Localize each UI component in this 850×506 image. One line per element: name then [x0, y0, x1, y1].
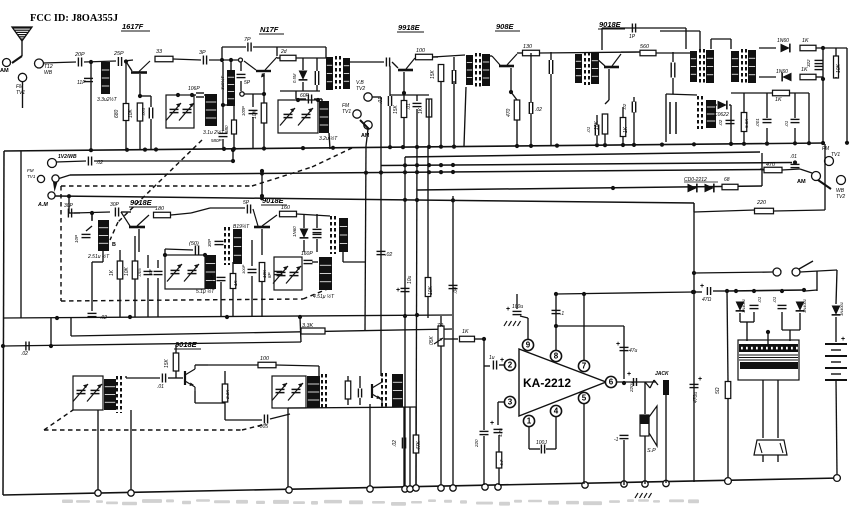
- svg-text:1K: 1K: [802, 38, 809, 44]
- svg-text:TV1: TV1: [831, 152, 840, 158]
- svg-text:2: 2: [508, 361, 513, 370]
- svg-text:470: 470: [766, 162, 775, 168]
- svg-text:N17F: N17F: [260, 25, 279, 34]
- svg-text:20P: 20P: [74, 52, 85, 58]
- svg-text:1K: 1K: [623, 126, 629, 133]
- svg-text:1u: 1u: [489, 355, 495, 361]
- svg-text:8: 8: [554, 352, 559, 361]
- svg-text:.02: .02: [100, 315, 107, 321]
- svg-text:TV1: TV1: [27, 174, 36, 179]
- svg-text:2.2K: 2.2K: [225, 389, 230, 400]
- svg-text:.02: .02: [392, 440, 398, 447]
- svg-text:C0622: C0622: [714, 112, 729, 118]
- svg-text:+: +: [490, 420, 494, 427]
- svg-text:1K: 1K: [418, 107, 424, 114]
- svg-text:S.P: S.P: [647, 448, 656, 454]
- svg-text:1K: 1K: [462, 329, 469, 335]
- svg-text:9918E: 9918E: [398, 23, 421, 32]
- svg-text:.02: .02: [21, 351, 28, 357]
- svg-text:KA-2212: KA-2212: [523, 376, 571, 390]
- svg-text:TV1: TV1: [342, 109, 351, 115]
- svg-text:.01: .01: [784, 120, 789, 127]
- svg-text:1K: 1K: [775, 97, 782, 103]
- svg-text:100P: 100P: [241, 106, 246, 116]
- svg-text:-1: -1: [614, 437, 619, 443]
- svg-text:680: 680: [114, 109, 120, 118]
- svg-text:0.5M: 0.5M: [292, 73, 297, 83]
- svg-text:5.1μ ½T: 5.1μ ½T: [196, 288, 215, 295]
- svg-text:AM: AM: [0, 68, 9, 74]
- svg-text:AM: AM: [797, 179, 806, 185]
- svg-text:15K: 15K: [393, 104, 399, 114]
- svg-text:2d: 2d: [280, 49, 287, 55]
- svg-text:3: 3: [508, 398, 513, 407]
- svg-text:1V2/WB: 1V2/WB: [58, 154, 77, 160]
- svg-text:1617F: 1617F: [122, 22, 144, 31]
- svg-text:FM: FM: [822, 146, 830, 152]
- svg-text:30P: 30P: [64, 203, 74, 209]
- svg-text:220: 220: [474, 439, 479, 448]
- svg-text:1: 1: [527, 417, 532, 426]
- svg-text:B: B: [112, 242, 116, 248]
- svg-text:220: 220: [756, 200, 766, 206]
- svg-text:.001: .001: [755, 118, 760, 127]
- svg-text:9018E: 9018E: [262, 196, 285, 205]
- svg-text:470u: 470u: [693, 392, 699, 403]
- svg-text:1K: 1K: [109, 269, 115, 276]
- svg-text:+: +: [627, 371, 631, 378]
- svg-text:470: 470: [506, 108, 512, 117]
- svg-text:1N60: 1N60: [776, 69, 788, 75]
- svg-text:+: +: [841, 336, 845, 343]
- svg-text:130: 130: [523, 44, 532, 50]
- svg-text:180: 180: [155, 206, 164, 212]
- svg-text:B19¼T: B19¼T: [233, 224, 250, 230]
- svg-text:+: +: [506, 306, 510, 313]
- svg-text:680: 680: [224, 125, 229, 133]
- svg-text:.02: .02: [718, 119, 723, 126]
- svg-text:4: 4: [554, 407, 559, 416]
- svg-text:100: 100: [416, 48, 425, 54]
- svg-text:330P: 330P: [209, 273, 214, 283]
- svg-text:.01: .01: [586, 126, 591, 133]
- svg-text:3.3u2½T: 3.3u2½T: [97, 96, 118, 103]
- svg-text:.005: .005: [141, 107, 146, 116]
- svg-text:7: 7: [582, 362, 587, 371]
- svg-text:WB: WB: [44, 70, 53, 76]
- svg-text:580P: 580P: [211, 138, 222, 143]
- svg-text:5Ω: 5Ω: [715, 387, 721, 394]
- svg-text:100P: 100P: [241, 264, 246, 274]
- svg-text:+: +: [616, 341, 620, 348]
- svg-text:A.M: A.M: [37, 202, 48, 208]
- svg-text:.01: .01: [772, 296, 777, 303]
- svg-text:160P: 160P: [301, 251, 313, 257]
- svg-text:10K: 10K: [836, 63, 842, 73]
- svg-text:220u: 220u: [629, 381, 634, 393]
- svg-text:30P: 30P: [207, 239, 212, 247]
- svg-text:322: 322: [806, 59, 811, 67]
- svg-text:100: 100: [260, 356, 269, 362]
- svg-text:TV2: TV2: [836, 194, 845, 200]
- svg-text:8P: 8P: [148, 269, 153, 275]
- svg-text:10K: 10K: [124, 266, 130, 276]
- svg-text:160: 160: [281, 205, 290, 211]
- svg-text:3P: 3P: [199, 50, 206, 56]
- svg-text:.01: .01: [157, 384, 164, 390]
- svg-text:+: +: [500, 357, 504, 364]
- svg-text:10P: 10P: [74, 235, 79, 243]
- svg-text:FCC ID: J8OA355J: FCC ID: J8OA355J: [30, 12, 118, 24]
- svg-text:47Ω: 47Ω: [702, 297, 712, 303]
- svg-text:9018E: 9018E: [130, 198, 153, 207]
- svg-text:11P: 11P: [77, 80, 86, 86]
- svg-text:25P: 25P: [113, 51, 124, 57]
- svg-text:6: 6: [609, 378, 614, 387]
- svg-text:1N4001: 1N4001: [839, 302, 844, 316]
- svg-text:908E: 908E: [496, 22, 515, 31]
- svg-text:560: 560: [640, 44, 649, 50]
- svg-text:(50): (50): [189, 241, 199, 247]
- svg-text:1P: 1P: [629, 34, 636, 40]
- svg-text:10K: 10K: [252, 109, 258, 119]
- svg-text:33: 33: [156, 49, 162, 55]
- svg-text:.1: .1: [560, 311, 564, 317]
- svg-text:10u: 10u: [407, 275, 413, 284]
- svg-text:5P: 5P: [243, 200, 250, 206]
- svg-text:+: +: [396, 287, 400, 294]
- svg-text:.01: .01: [790, 154, 797, 160]
- svg-text:15K: 15K: [430, 69, 436, 79]
- svg-text:.04: .04: [453, 287, 459, 294]
- svg-text:4.51μ ½T: 4.51μ ½T: [313, 293, 335, 300]
- svg-text:FM: FM: [27, 168, 34, 173]
- svg-text:1N60: 1N60: [292, 226, 297, 237]
- svg-text:5.6K: 5.6K: [744, 118, 749, 128]
- svg-text:47K: 47K: [416, 440, 422, 450]
- svg-text:9018E: 9018E: [175, 340, 198, 349]
- svg-text:7P: 7P: [244, 37, 251, 43]
- svg-text:10K: 10K: [128, 108, 134, 118]
- svg-text:5: 5: [582, 394, 587, 403]
- svg-text:4.7: 4.7: [499, 459, 504, 466]
- svg-text:1N4001: 1N4001: [802, 299, 807, 313]
- svg-text:3.1u 2½T: 3.1u 2½T: [203, 129, 225, 136]
- svg-text:.02: .02: [535, 107, 542, 113]
- svg-text:TV2: TV2: [356, 86, 365, 92]
- svg-text:3.3K: 3.3K: [302, 323, 313, 329]
- svg-text:60P: 60P: [300, 93, 310, 99]
- svg-text:.01: .01: [406, 103, 412, 110]
- svg-text:8P: 8P: [267, 272, 272, 278]
- svg-text:9: 9: [526, 341, 531, 350]
- svg-text:68: 68: [724, 177, 730, 183]
- svg-text:7R: 7R: [437, 323, 444, 329]
- svg-text:30P: 30P: [110, 202, 120, 208]
- svg-text:.02: .02: [622, 103, 627, 110]
- svg-text:.02: .02: [385, 252, 392, 258]
- svg-text:.01: .01: [757, 296, 762, 303]
- svg-text:100J: 100J: [536, 440, 547, 446]
- svg-text:JACK: JACK: [655, 371, 669, 377]
- svg-text:106P: 106P: [188, 86, 200, 92]
- svg-text:1N60: 1N60: [777, 38, 789, 44]
- svg-text:.01: .01: [378, 97, 384, 104]
- svg-text:47u: 47u: [629, 348, 638, 354]
- svg-text:AM: AM: [361, 133, 370, 139]
- svg-text:.005: .005: [137, 268, 142, 277]
- svg-text:+: +: [698, 376, 702, 383]
- svg-text:5P: 5P: [244, 80, 251, 86]
- svg-text:2.51u ½T: 2.51u ½T: [87, 253, 110, 260]
- svg-text:TV1: TV1: [16, 90, 25, 96]
- svg-text:+: +: [700, 283, 704, 290]
- svg-text:10K: 10K: [428, 285, 434, 295]
- svg-text:15K: 15K: [164, 358, 170, 368]
- svg-text:1N4001: 1N4001: [741, 299, 746, 313]
